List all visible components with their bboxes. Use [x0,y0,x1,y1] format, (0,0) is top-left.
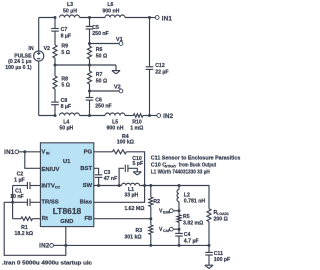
svg-text:900 nH: 900 nH [102,8,119,14]
wire bottom rail left [39,115,55,117]
svg-text:22 µF: 22 µF [155,70,168,76]
wire R6-mid [89,59,91,65]
label C1 [10,188,24,199]
svg-text:R6: R6 [96,47,103,53]
svg-text:R3: R3 [136,228,143,234]
wire VCAP tap [173,228,179,230]
svg-text:ESR: ESR [163,211,171,215]
resistor R8 [53,76,57,89]
label R1 [15,225,34,237]
wire IN1-VIN [19,151,41,153]
label V2 source [44,46,50,52]
label LT8618 [53,207,82,216]
label C8 [61,98,71,110]
capacitor C1 [27,199,30,206]
wire R7-V2node [89,84,91,91]
label L2 [184,192,206,204]
svg-text:8 µF: 8 µF [61,33,71,39]
svg-text:EN/UV: EN/UV [41,167,59,173]
inductor L1 [122,183,140,185]
pin FB [84,216,92,222]
label L3 [63,2,77,14]
svg-text:Bias: Bias [80,200,93,206]
wire rail to gnd loop [4,202,66,255]
label C11 cap [214,251,230,263]
label R9 [61,44,70,56]
svg-text:GND: GND [60,219,73,225]
wire C6-bot [89,100,91,115]
label V1 [116,37,123,43]
capacitor C8 [51,102,59,105]
svg-text:L3: L3 [67,2,73,8]
svg-text:LT8618: LT8618 [53,207,82,216]
node junction bot col2 [88,114,91,117]
resistor R5 [177,215,181,223]
wire C7-R9 [54,31,56,45]
wire R2-FBnode [150,207,152,219]
resistor R3 [149,225,153,235]
svg-text:V2: V2 [44,46,50,52]
wire top rail left [39,17,55,19]
node IN2 in terminal [50,244,54,248]
svg-text:301 kΩ: 301 kΩ [124,234,141,240]
svg-text:INTV: INTV [41,183,54,189]
label IN2 out [163,113,174,120]
wire VESR tap [173,210,179,212]
node junction V2tap [88,90,91,93]
svg-text:STRAY: STRAY [165,165,177,169]
label L1 [124,187,138,198]
label IN1 out [162,15,173,22]
capacitor C12 [146,67,154,70]
label R5 [183,214,203,226]
label U1 [63,159,71,165]
label C12 [155,63,168,76]
pin BST [80,166,92,172]
inductor L2 [177,190,179,202]
resistor R7 [88,71,92,84]
svg-text:PG: PG [84,149,93,155]
label RLOAD1 [214,210,229,222]
wire C11-gnd [208,255,210,265]
wire EN drop [25,152,41,169]
label R6 [96,47,107,59]
label L4 [59,120,73,132]
wire C2-rail [13,185,28,187]
wire source top [38,18,40,51]
node V2 terminal [119,89,123,93]
pin Rt [42,216,48,222]
wire V1 tap [90,43,120,45]
node junction VESR [178,209,181,212]
svg-text:5 Ω: 5 Ω [61,83,70,89]
wire col2 top-C5 [89,18,91,27]
label tran directive [2,260,92,266]
svg-text:V1: V1 [116,37,123,43]
label note C10 [151,163,216,169]
wire bot to IN2 [150,115,157,117]
svg-text:C11 Sensor to Enclosure Parasi: C11 Sensor to Enclosure Parasitics [151,156,241,162]
pin VIN [41,149,50,155]
label C10 [132,156,143,167]
capacitor C7 [51,29,59,32]
wire ground rail right [66,244,209,246]
wire VCAP-C4 [178,229,180,233]
wire C1-rail [13,201,28,203]
node junction C10 SW [118,184,121,187]
wire top L3-col2 [80,17,106,19]
node junction bot C12 [148,114,151,117]
inductor L6 [105,15,125,18]
capacitor C3 [95,175,102,178]
svg-text:5 pF: 5 pF [132,161,143,167]
wire R4-VOUT rail [126,152,144,186]
resistor R1 [21,217,33,221]
svg-text:C3: C3 [104,170,111,176]
svg-text:47 nF: 47 nF [104,176,118,182]
wire mid-R7 [89,65,91,71]
svg-text:4.7 µF: 4.7 µF [184,239,199,245]
svg-text:1.62 MΩ: 1.62 MΩ [124,206,144,212]
label IN2 in [39,242,50,249]
svg-text:L6: L6 [107,2,113,8]
wire BST lead [94,168,99,175]
wire C10 up [119,168,124,185]
capacitor C5 [86,26,94,29]
node IN1 out terminal [155,16,159,20]
label R3 [124,228,142,240]
wire R3-gnd [150,235,152,246]
ground C11 [205,265,213,268]
label C3 [104,170,118,182]
svg-text:C8: C8 [61,98,68,104]
label R2 [153,199,160,205]
wire R2 top lead [150,186,152,198]
node junction FB [149,217,152,220]
label R2 value [124,206,144,212]
node junction top C12 [148,16,151,19]
inductor L3 [60,15,80,18]
wire C4-gnd [178,236,180,245]
wire V2node-C6 [89,91,91,98]
svg-text:TR/SS: TR/SS [41,200,58,206]
svg-text:IN: IN [46,152,50,156]
wire bot L4-col2 [80,115,106,117]
pin TR/SS [41,200,58,206]
node junction bot col1 [54,114,57,117]
wire top L6-C12 [125,17,150,19]
wire R5-VCAP [178,222,180,229]
svg-text:Rt: Rt [42,216,48,222]
svg-text:50 Ω: 50 Ω [96,78,107,84]
svg-text:R9: R9 [61,44,68,50]
wire R1 leads [13,218,41,220]
node junction col1 mid [54,64,57,67]
label V2 tap [114,85,121,91]
wire mid-R8 [54,65,56,76]
node junction top col2 [88,16,91,19]
svg-text:50 µH: 50 µH [63,8,77,14]
capacitor C6 [86,98,94,101]
label R10 [130,120,143,132]
wire IN2-GND [54,244,66,246]
node junction top col1 [54,16,57,19]
svg-text:IN2: IN2 [163,113,174,120]
svg-text:U1: U1 [63,159,71,165]
node junction EN tap [23,150,26,153]
svg-text:C6: C6 [95,97,102,103]
pin Bias [80,200,93,206]
node junction C4 gnd [178,244,181,247]
svg-text:1 mΩ: 1 mΩ [130,125,143,131]
svg-text:L1 Würth 744031330 33 µH: L1 Würth 744031330 33 µH [151,170,210,176]
svg-text:R2: R2 [153,199,160,205]
resistor RLOAD1 [207,209,211,222]
wire R9-mid [54,58,56,65]
capacitor C4 [175,233,183,236]
label R7 [96,72,107,84]
svg-text:R5: R5 [183,214,190,220]
svg-text:33 µH: 33 µH [124,192,138,198]
label L5 [106,120,123,132]
node junction V1 [88,42,91,45]
inductor L5 [105,113,125,116]
ground C10 [133,172,141,175]
node junction rail C1 [11,201,14,204]
label C4 [184,232,199,244]
label VESR [159,209,171,215]
label IN source [28,46,33,52]
svg-text:3.82 mΩ: 3.82 mΩ [183,220,203,226]
label VCAP [159,227,171,233]
resistor R9 [53,45,57,58]
label C7 [61,27,71,39]
svg-text:IN: IN [28,46,33,52]
svg-text:CAP: CAP [163,229,171,233]
svg-text:CC: CC [55,186,61,190]
wire L2-VESR [178,202,180,211]
voltage source V2 [34,51,44,61]
wire L1-VOUT [140,185,180,187]
svg-text:from Buck Output: from Buck Output [179,163,216,169]
wire SW lead [94,185,122,187]
wire C12 bottom [149,69,151,115]
wire VESR-R5 [178,211,180,215]
label R8 [61,76,70,88]
node junction col2 mid [88,64,91,67]
wire C3-SW [98,177,100,185]
wire Bias loop [94,186,145,203]
label IN1 in [4,149,15,156]
wire bot L5-R10 [125,115,133,117]
label PULSE [5,53,32,71]
resistor R2 [149,197,153,207]
wire C8-bot [54,105,56,116]
svg-text:IN1: IN1 [4,149,15,156]
node VCAP terminal [169,227,173,231]
svg-text:C5: C5 [92,25,99,31]
svg-text:.tran 0 5000u 4900u startup ui: .tran 0 5000u 4900u startup uic [2,260,92,266]
node junction VCAP [178,228,181,231]
svg-text:8 µF: 8 µF [61,104,71,110]
svg-text:50 Ω: 50 Ω [96,53,107,59]
wire C11 top [208,245,210,252]
wire L2 top lead [178,186,180,190]
svg-text:0.781 nH: 0.781 nH [184,198,206,204]
wire C5-V1node [89,29,91,44]
svg-text:18.2 kΩ: 18.2 kΩ [15,231,34,237]
wire FBnode-R3 [150,219,152,225]
op-amp U1 LT8618 body [40,143,93,227]
wire RLOAD top [179,186,209,209]
svg-text:IN2: IN2 [39,242,50,249]
svg-text:IN1: IN1 [162,15,173,22]
wire left rail [12,186,14,219]
svg-text:250 nF: 250 nF [95,104,111,110]
svg-text:250 nF: 250 nF [92,31,108,37]
label C5 [92,25,108,37]
label C6 [95,97,111,109]
svg-text:200 Ω: 200 Ω [214,216,228,222]
pin PG [84,149,93,155]
node junction R3 gnd [149,244,152,247]
wire C10-gnd [128,168,137,172]
wire TRSS-C1 [30,201,40,203]
label C2 [14,172,24,184]
pin EN/UV [41,167,59,173]
ground mid [112,65,120,74]
wire GND stub [65,227,67,246]
wire R8-C8 [54,89,56,102]
wire PG lead [94,151,113,153]
svg-text:SW: SW [83,183,93,189]
svg-text:BST: BST [80,166,92,172]
svg-text:FB: FB [84,216,92,222]
pin SW [83,183,93,189]
pin INTVCC [41,183,60,189]
wire V2 tap [90,90,120,92]
label note C11 [151,156,241,162]
resistor R6 [88,46,92,59]
wire INTVCC-C2 [30,185,40,187]
node V1 terminal [119,42,123,46]
svg-text:C4: C4 [184,232,191,238]
wire col1 top-C7 [54,18,56,29]
svg-text:100 µs 0 1): 100 µs 0 1) [5,65,32,71]
svg-text:C7: C7 [61,27,68,33]
wire C12 top [149,18,151,67]
wire mid rail [55,64,116,66]
resistor R10 [133,114,143,118]
svg-text:1 µF: 1 µF [14,178,24,184]
svg-text:V2: V2 [114,85,121,91]
node junction GND [64,244,67,247]
pin GND [60,219,73,225]
node IN1 in terminal [15,150,19,154]
node IN2 out terminal [157,114,161,118]
capacitor C2 [27,182,30,189]
wire R10-C12node [143,115,150,117]
svg-text:C12: C12 [155,63,165,69]
svg-text:V: V [41,149,45,155]
node junction L2 top [178,184,181,187]
node VESR terminal [169,209,173,213]
resistor R4 [113,150,127,154]
wire FB lead [94,218,151,220]
svg-text:5 Ω: 5 Ω [61,50,70,56]
inductor L4 [60,113,80,116]
capacitor C10 [125,165,128,172]
label note L1 [151,170,210,176]
svg-text:100 pF: 100 pF [214,257,230,263]
node junction VOUT-R4 [143,184,146,187]
node junction RLOAD gnd [208,244,211,247]
svg-text:R8: R8 [61,76,68,82]
wire V1node-R6 [89,44,91,47]
svg-text:R7: R7 [96,72,103,78]
wire top to IN1 [150,17,156,19]
label L6 [102,2,119,14]
svg-text:50 µH: 50 µH [59,125,73,131]
svg-text:900 nH: 900 nH [106,125,123,131]
node junction C3 SW [97,184,100,187]
node junction VOUT-R2 [149,184,152,187]
capacitor C11 [205,252,213,255]
wire source bottom [38,61,40,115]
label R4 [117,134,134,145]
svg-text:100 kΩ: 100 kΩ [117,139,134,145]
wire RLOAD-gnd [208,222,210,246]
